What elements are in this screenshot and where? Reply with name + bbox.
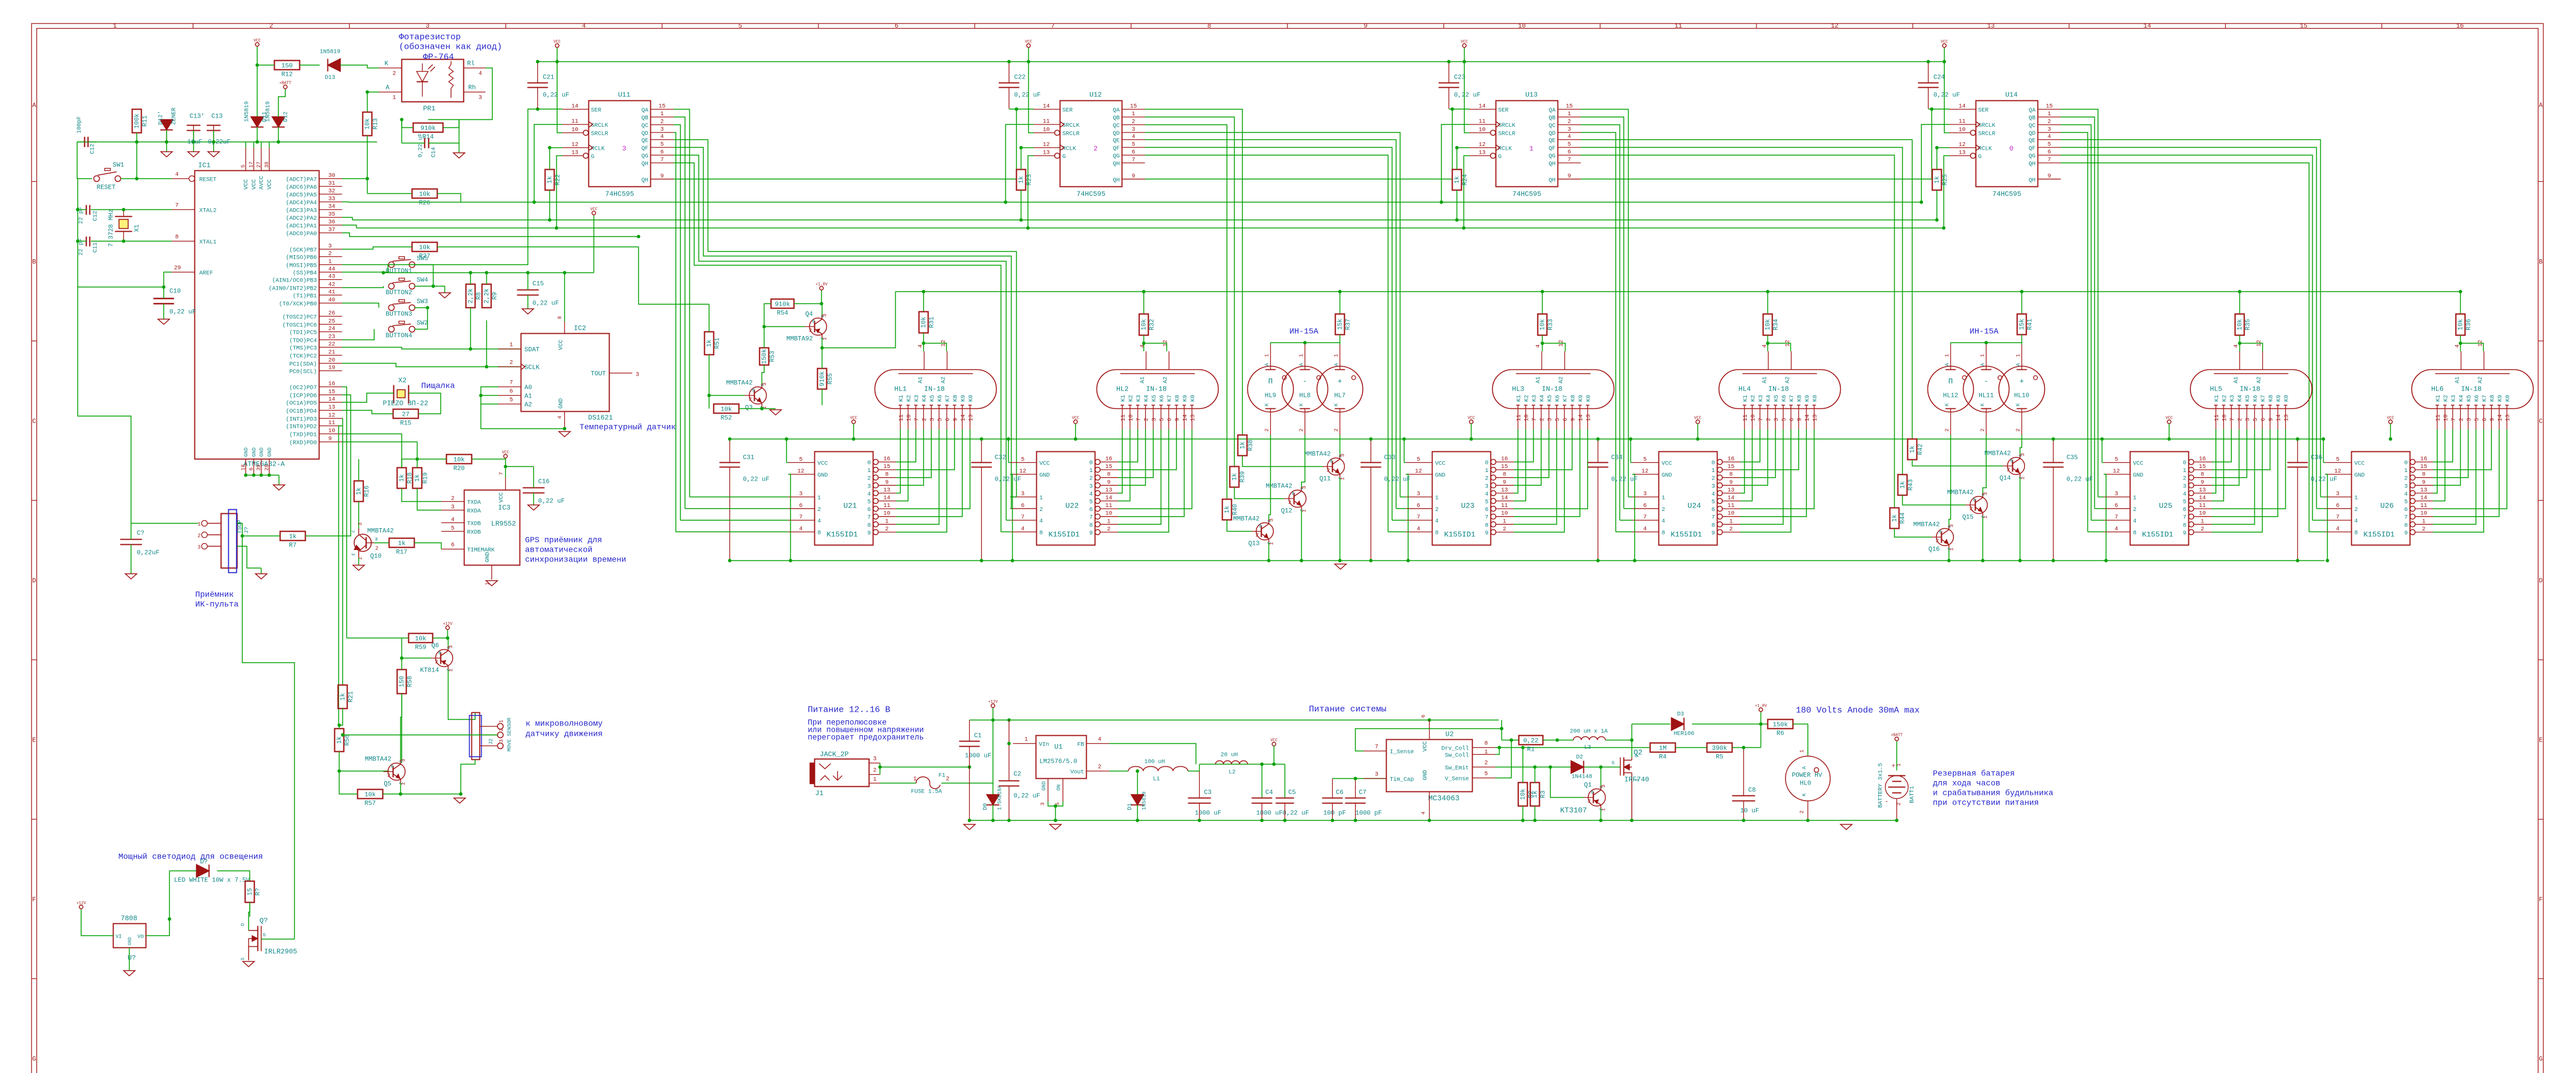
- svg-text:0,22 uF: 0,22 uF: [170, 309, 196, 316]
- svg-text:150: 150: [399, 676, 406, 688]
- svg-text:4: 4: [1485, 491, 1488, 498]
- svg-text:QH: QH: [641, 177, 648, 184]
- svg-text:GND: GND: [128, 937, 133, 946]
- pin GND 4 bottom of U2: [1429, 792, 1430, 821]
- nixie tube HL5 IN-18 envelope: [2191, 370, 2312, 409]
- capacitor C33 0,22 uF: [1371, 439, 1372, 463]
- wire R39 to Q12 base: [1235, 487, 1285, 499]
- svg-text:10: 10: [1129, 414, 1135, 421]
- wire bus SRCLK y=352: [349, 202, 1922, 203]
- svg-text:4: 4: [1140, 344, 1146, 348]
- svg-text:2: 2: [1766, 418, 1773, 421]
- svg-text:2: 2: [2459, 418, 2465, 421]
- svg-text:A: A: [1264, 363, 1270, 366]
- capacitor C16 0,22 uF: [523, 487, 545, 489]
- pin (ICP)PD6 15: [319, 395, 342, 396]
- svg-text:VCC: VCC: [2165, 416, 2173, 421]
- svg-text:+12V: +12V: [76, 902, 87, 906]
- +180V flag: [819, 286, 823, 290]
- pin (TCK)PC2 21: [319, 355, 342, 356]
- svg-text:R11: R11: [142, 115, 149, 127]
- svg-text:VCC: VCC: [499, 492, 505, 502]
- svg-text:8: 8: [2355, 530, 2358, 537]
- svg-text:2: 2: [1485, 476, 1488, 482]
- pin QE 4 of U13: [1558, 139, 1581, 141]
- pin (ADC0)PA0 37: [319, 232, 342, 233]
- wire V_Sense riser: [1496, 740, 1512, 778]
- svg-text:2: 2: [818, 507, 821, 513]
- pin V_Sense 5 of U2: [1473, 778, 1496, 779]
- svg-text:1: 1: [2020, 477, 2026, 479]
- svg-text:3: 3: [358, 522, 364, 525]
- svg-text:ИН-15А: ИН-15А: [1970, 327, 1999, 337]
- svg-text:7: 7: [2404, 515, 2407, 521]
- svg-text:SER: SER: [1063, 108, 1073, 114]
- svg-text:Q1: Q1: [1584, 782, 1592, 789]
- svg-text:К: К: [1945, 403, 1950, 407]
- +12V flag power: [991, 704, 994, 707]
- svg-text:RCLK: RCLK: [591, 146, 605, 153]
- pin QH 9 of U11: [651, 178, 674, 180]
- svg-text:VCC: VCC: [253, 39, 261, 44]
- svg-text:6: 6: [2261, 418, 2267, 421]
- wire U13 QA-QD to U24: [1581, 117, 1624, 509]
- svg-text:7: 7: [1532, 418, 1538, 421]
- svg-text:K6: K6: [938, 395, 944, 401]
- pin QF 5 of U13: [1558, 147, 1581, 148]
- svg-text:TXDB: TXDB: [467, 521, 481, 528]
- svg-text:7: 7: [510, 380, 513, 387]
- svg-text:9: 9: [1089, 530, 1092, 537]
- svg-text:A2: A2: [2478, 376, 2484, 383]
- pin (SCK)PB7 3: [319, 249, 342, 250]
- svg-text:G: G: [1978, 154, 1982, 161]
- wires buttons left to MCU: [342, 265, 388, 272]
- svg-text:1k: 1k: [547, 176, 554, 184]
- svg-text:4: 4: [1567, 134, 1571, 141]
- svg-text:S: S: [1635, 779, 1640, 782]
- bottom gnd pins 18 6 39 28: [245, 459, 247, 475]
- svg-text:8: 8: [557, 316, 563, 319]
- svg-text:F1: F1: [939, 773, 946, 779]
- diode D2 1N4148: [1571, 761, 1584, 774]
- svg-text:13: 13: [1958, 150, 1965, 157]
- wire R31 anode junction HL1: [922, 290, 926, 294]
- svg-text:Мощный светодиод для освещения: Мощный светодиод для освещения: [119, 852, 263, 862]
- buzzer X2 PIEZO: [397, 390, 405, 398]
- svg-text:2: 2: [1980, 428, 1986, 431]
- svg-text:10: 10: [907, 414, 913, 421]
- svg-text:K: K: [385, 61, 389, 68]
- svg-text:B: B: [1973, 498, 1976, 503]
- svg-text:10: 10: [571, 127, 578, 134]
- svg-text:1: 1: [1601, 808, 1607, 811]
- svg-text:5: 5: [2474, 418, 2481, 421]
- svg-text:R51: R51: [715, 337, 721, 349]
- svg-text:IN-18: IN-18: [924, 385, 945, 393]
- svg-text:14: 14: [571, 104, 578, 110]
- resistor R17 1k: [389, 539, 415, 548]
- svg-text:B: B: [391, 765, 393, 770]
- svg-text:G: G: [1612, 761, 1615, 766]
- svg-text:2: 2: [2047, 119, 2051, 126]
- svg-text:100pF: 100pF: [77, 116, 83, 133]
- svg-text:GND: GND: [267, 447, 273, 456]
- svg-text:12: 12: [329, 413, 335, 419]
- MOSFET Q2 IRF740: [1623, 758, 1625, 776]
- svg-text:A1: A1: [2234, 376, 2240, 383]
- pin RCLK 12 of U13: [1470, 147, 1496, 149]
- svg-text:IC2: IC2: [574, 325, 587, 333]
- svg-text:4: 4: [818, 518, 821, 525]
- svg-text:A: A: [386, 85, 390, 92]
- svg-text:38: 38: [264, 162, 270, 168]
- svg-text:1: 1: [1502, 518, 1506, 525]
- wire top rail to R1: [1501, 720, 1502, 740]
- pin QF 5 of U12: [1122, 147, 1145, 148]
- svg-text:0,22 uF: 0,22 uF: [1611, 477, 1638, 483]
- wire U11 QE-QH to U22: [674, 140, 1017, 497]
- ground for C13': [188, 152, 200, 157]
- pin SRCLR 10 of U13: [1490, 130, 1496, 135]
- svg-text:VCC: VCC: [502, 451, 509, 455]
- svg-text:RXDB: RXDB: [467, 530, 481, 536]
- left pins of U26: [2325, 462, 2352, 463]
- wire MCU PD to Q6 area: [342, 387, 347, 638]
- svg-text:7: 7: [1711, 515, 1715, 521]
- svg-text:5: 5: [2404, 500, 2407, 506]
- svg-text:14: 14: [1578, 414, 1584, 421]
- svg-text:2: 2: [270, 23, 274, 30]
- svg-text:10: 10: [2222, 414, 2228, 421]
- svg-text:XTAL2: XTAL2: [200, 208, 217, 214]
- svg-text:R42: R42: [1918, 444, 1925, 455]
- svg-text:3: 3: [426, 23, 430, 30]
- svg-text:R12: R12: [282, 72, 293, 79]
- svg-text:8: 8: [867, 522, 871, 529]
- svg-text:34: 34: [329, 204, 335, 210]
- pin (INT0)PD2 11: [319, 426, 342, 427]
- svg-text:2,2k: 2,2k: [484, 288, 491, 303]
- svg-text:(MISO)PB6: (MISO)PB6: [286, 255, 317, 262]
- resistor R20 10k: [447, 455, 472, 464]
- capacitor C12' 100pF: [84, 137, 85, 147]
- svg-text:U?: U?: [128, 954, 136, 962]
- svg-text:9: 9: [2490, 418, 2496, 421]
- svg-text:1: 1: [1529, 145, 1533, 153]
- svg-text:VCC: VCC: [1662, 461, 1672, 467]
- vcc flag (top left supply): [255, 42, 259, 46]
- svg-text:1: 1: [113, 23, 117, 30]
- gnd feed for U25: [2104, 474, 2106, 561]
- svg-text:G: G: [1063, 154, 1066, 161]
- svg-text:B: B: [1939, 530, 1942, 535]
- pin QA 15 of U11: [651, 109, 674, 110]
- svg-text:D0: D0: [983, 803, 989, 810]
- pin QF 5 of U11: [651, 147, 674, 148]
- input riser wires of U24: [1629, 497, 1633, 498]
- svg-text:KT3107: KT3107: [1560, 806, 1587, 815]
- wire U13 QF to R43: [1581, 147, 1903, 475]
- svg-text:(TCK)PC2: (TCK)PC2: [289, 353, 317, 360]
- wire bus RCLK y=383: [353, 220, 1937, 221]
- svg-text:1: 1: [1089, 468, 1092, 474]
- pin RCLK 12 of U11: [563, 147, 589, 149]
- wire G tap for U13: [1464, 156, 1470, 228]
- svg-text:5: 5: [1485, 771, 1488, 778]
- svg-text:K1: K1: [1121, 395, 1127, 401]
- svg-text:14: 14: [2199, 495, 2206, 502]
- svg-text:VCC: VCC: [553, 40, 561, 45]
- pin GND 1 of IC3: [491, 565, 493, 580]
- wire U11 QA-QD to U21: [674, 132, 676, 532]
- pin (TOSC1)PC6 25: [319, 324, 342, 325]
- svg-text:1: 1: [499, 720, 505, 723]
- svg-text:(TXD)PD1: (TXD)PD1: [289, 432, 317, 439]
- svg-text:0,22uF: 0,22uF: [137, 550, 160, 557]
- svg-text:12: 12: [1478, 142, 1485, 149]
- svg-text:11: 11: [1478, 119, 1485, 125]
- svg-text:K1: K1: [2214, 395, 2220, 401]
- svg-text:QA: QA: [641, 108, 648, 114]
- wires R18 R19 to IC3: [402, 489, 442, 502]
- svg-text:10: 10: [1751, 414, 1757, 421]
- svg-text:13: 13: [1105, 487, 1112, 494]
- wire I_Sense loop: [1356, 729, 1502, 751]
- svg-text:GND: GND: [1662, 473, 1672, 479]
- svg-text:15: 15: [247, 888, 254, 895]
- svg-text:1k: 1k: [1240, 442, 1247, 450]
- svg-text:(T0/XCK)PB0: (T0/XCK)PB0: [279, 301, 317, 308]
- svg-text:A1: A1: [1762, 376, 1769, 383]
- svg-text:MMBTA42: MMBTA42: [1266, 483, 1292, 490]
- svg-text:1: 1: [2133, 495, 2137, 502]
- svg-text:IN-18: IN-18: [1146, 385, 1167, 393]
- resistor R7 1k: [280, 532, 306, 541]
- svg-text:14: 14: [961, 414, 967, 421]
- capacitor C21 0,22 uF: [528, 83, 548, 84]
- svg-text:LR9552: LR9552: [491, 520, 516, 528]
- svg-text:K9: K9: [1182, 395, 1189, 401]
- svg-text:5: 5: [1089, 500, 1092, 506]
- pin QD 3 of U14: [2038, 132, 2061, 133]
- svg-text:VCC: VCC: [1941, 40, 1948, 45]
- gnd feed for U26: [2325, 474, 2328, 561]
- wire PR1 anode to R13 node: [368, 92, 379, 112]
- transistor Q15 MMBTA42: [1970, 497, 1988, 514]
- resistor R39 1k: [1230, 467, 1239, 487]
- svg-text:IN-18: IN-18: [1769, 385, 1789, 393]
- wire PA0 row long: [342, 233, 639, 237]
- svg-text:2: 2: [2133, 507, 2137, 513]
- svg-text:Температурный датчик: Температурный датчик: [580, 423, 676, 432]
- pin QH 7 of U12: [1122, 162, 1145, 163]
- svg-text:K9: K9: [2276, 395, 2282, 401]
- svg-text:3: 3: [1949, 524, 1955, 527]
- vcc flag of U13: [1462, 44, 1466, 47]
- driver U21 K155ID1 box: [815, 452, 873, 545]
- wire G tap for U14: [1944, 156, 1950, 228]
- svg-text:BUTTON2: BUTTON2: [386, 290, 412, 296]
- input riser wires of U23: [1400, 497, 1406, 498]
- svg-text:1: 1: [401, 782, 407, 785]
- svg-text:200 uH x 1A: 200 uH x 1A: [1570, 729, 1608, 735]
- output pins of U24: [1718, 459, 1723, 465]
- transistor Q6 KT814 (PNP): [436, 650, 453, 667]
- svg-text:5: 5: [938, 418, 944, 421]
- svg-text:3: 3: [636, 372, 639, 379]
- pin QH 9 of U14: [2038, 178, 2061, 180]
- svg-text:-: -: [1885, 799, 1889, 806]
- svg-text:30: 30: [329, 173, 335, 180]
- svg-text:74HC595: 74HC595: [605, 190, 634, 198]
- wire Q6 emitter: [448, 638, 449, 647]
- wire XTAL2 row: [91, 209, 172, 210]
- svg-text:HL1: HL1: [895, 385, 907, 393]
- svg-text:(T1)PB1: (T1)PB1: [292, 293, 317, 300]
- svg-text:C12: C12: [93, 210, 99, 221]
- pin (T0/XCK)PB0 40: [319, 303, 342, 304]
- pin VCC 7 of IC3: [505, 478, 506, 490]
- svg-text:VCC: VCC: [590, 208, 598, 212]
- svg-text:GND: GND: [1423, 770, 1429, 780]
- svg-text:8: 8: [1435, 530, 1439, 537]
- svg-text:I_Sense: I_Sense: [1390, 750, 1414, 756]
- svg-text:4: 4: [175, 172, 179, 178]
- resistor R5 390k: [1707, 743, 1732, 752]
- svg-text:(TDI)PC5: (TDI)PC5: [289, 330, 317, 337]
- svg-text:150k: 150k: [1773, 722, 1788, 729]
- svg-text:10k: 10k: [454, 457, 465, 464]
- resistor R16 1k: [354, 481, 364, 502]
- svg-text:R54: R54: [777, 310, 789, 317]
- svg-text:2: 2: [451, 496, 454, 502]
- svg-text:к микроволновому: к микроволновому: [526, 720, 603, 729]
- svg-text:QE: QE: [2028, 138, 2035, 145]
- svg-text:GND: GND: [818, 473, 828, 479]
- svg-text:AREF: AREF: [200, 271, 213, 277]
- svg-text:D: D: [2539, 578, 2543, 585]
- svg-text:8: 8: [2422, 472, 2425, 478]
- svg-text:16: 16: [2456, 23, 2464, 30]
- svg-text:12: 12: [1043, 142, 1049, 149]
- svg-text:A2: A2: [2257, 376, 2263, 383]
- svg-text:DS1621: DS1621: [588, 414, 613, 422]
- wire PA7 sense net: [342, 178, 368, 180]
- svg-text:3: 3: [799, 491, 802, 498]
- svg-text:1k: 1k: [1454, 176, 1461, 184]
- capacitor C22 0,22 uF: [999, 83, 1020, 84]
- svg-text:A: A: [1945, 363, 1950, 366]
- nixie tube HL3 IN-18 envelope: [1493, 370, 1614, 409]
- svg-text:1: 1: [198, 522, 201, 528]
- svg-text:3: 3: [622, 145, 626, 153]
- transistor Q4 MMBTA92 (PNP): [810, 318, 827, 335]
- svg-text:27: 27: [402, 412, 409, 419]
- svg-text:C8: C8: [1748, 787, 1756, 794]
- svg-text:K3: K3: [1136, 395, 1142, 401]
- pin Sw_Emit 2 of U2: [1473, 767, 1496, 768]
- wire reset net: [77, 142, 92, 179]
- svg-text:0,22 uF: 0,22 uF: [418, 133, 424, 157]
- svg-text:R17: R17: [396, 549, 408, 556]
- svg-text:(ADC2)PA2: (ADC2)PA2: [286, 215, 317, 222]
- pin VCC 6 top of U2: [1429, 720, 1430, 740]
- svg-text:6: 6: [1021, 503, 1024, 509]
- vcc flag IC3: [504, 454, 507, 458]
- resistor R8 2,2k: [466, 284, 475, 308]
- svg-text:IN-18: IN-18: [1542, 385, 1563, 393]
- svg-text:C2: C2: [1014, 771, 1021, 778]
- svg-text:5: 5: [2253, 418, 2259, 421]
- pin SCLK 2: [498, 366, 521, 368]
- wire MCU rows to buses: [342, 201, 349, 203]
- svg-text:14: 14: [1478, 104, 1485, 110]
- svg-text:JACK_2P: JACK_2P: [820, 751, 849, 759]
- pin 2 of J1: [869, 774, 880, 775]
- svg-text:1: 1: [2404, 468, 2407, 474]
- svg-text:0: 0: [867, 461, 871, 467]
- svg-text:74HC595: 74HC595: [1076, 190, 1105, 198]
- pin SER 14 of U14: [1950, 109, 1976, 110]
- left pins of U22: [1010, 462, 1037, 463]
- svg-text:VI: VI: [116, 934, 122, 940]
- svg-text:К: К: [1334, 403, 1340, 407]
- wire Q15 collector from HL11: [1983, 435, 1986, 494]
- pin QA 15 of U12: [1122, 109, 1145, 110]
- svg-text:BUTTON4: BUTTON4: [386, 333, 413, 340]
- svg-text:10k: 10k: [1765, 319, 1772, 330]
- svg-text:10: 10: [2199, 511, 2206, 517]
- svg-text:GND: GND: [252, 447, 257, 456]
- wire U13 QA-QD to U24: [1581, 132, 1616, 532]
- pin (RXD)PD0 9: [319, 442, 342, 443]
- svg-text:QH: QH: [641, 161, 648, 167]
- svg-text:5: 5: [2047, 142, 2051, 148]
- wire switch node vertical: [1632, 724, 1633, 758]
- svg-text:2: 2: [1936, 539, 1939, 544]
- svg-text:1k: 1k: [1232, 473, 1239, 481]
- svg-text:2: 2: [1945, 428, 1950, 431]
- svg-text:9: 9: [2422, 479, 2425, 486]
- svg-text:21: 21: [329, 350, 335, 356]
- svg-text:+12V: +12V: [443, 622, 453, 627]
- pin Sw_Coll 1 of U2: [1473, 754, 1496, 755]
- svg-text:5: 5: [1782, 418, 1788, 421]
- svg-text:4: 4: [1098, 737, 1102, 743]
- gnd feed for U24: [1633, 474, 1635, 561]
- wire U12 QD-QG to U23: [1145, 147, 1392, 520]
- svg-text:K9: K9: [1578, 395, 1584, 401]
- driver U23 K155ID1 box: [1433, 452, 1491, 545]
- svg-text:K7: K7: [1563, 395, 1569, 401]
- svg-text:10: 10: [329, 428, 335, 435]
- svg-text:K6: K6: [2253, 395, 2259, 401]
- wire Q1 collector: [1601, 809, 1602, 821]
- svg-text:C: C: [352, 530, 357, 532]
- svg-text:-: -: [1984, 377, 1989, 386]
- wire vcc link y=107: [538, 61, 1945, 63]
- svg-text:QE: QE: [1113, 138, 1119, 145]
- svg-text:5: 5: [1711, 500, 1715, 506]
- svg-text:2: 2: [873, 768, 877, 774]
- svg-text:910k: 910k: [420, 126, 436, 132]
- svg-text:6: 6: [1711, 507, 1715, 513]
- pin A2 5: [498, 404, 521, 405]
- svg-text:IRLR2905: IRLR2905: [264, 948, 298, 956]
- svg-text:0,22 uF: 0,22 uF: [1454, 92, 1481, 99]
- svg-text:4: 4: [1536, 344, 1542, 348]
